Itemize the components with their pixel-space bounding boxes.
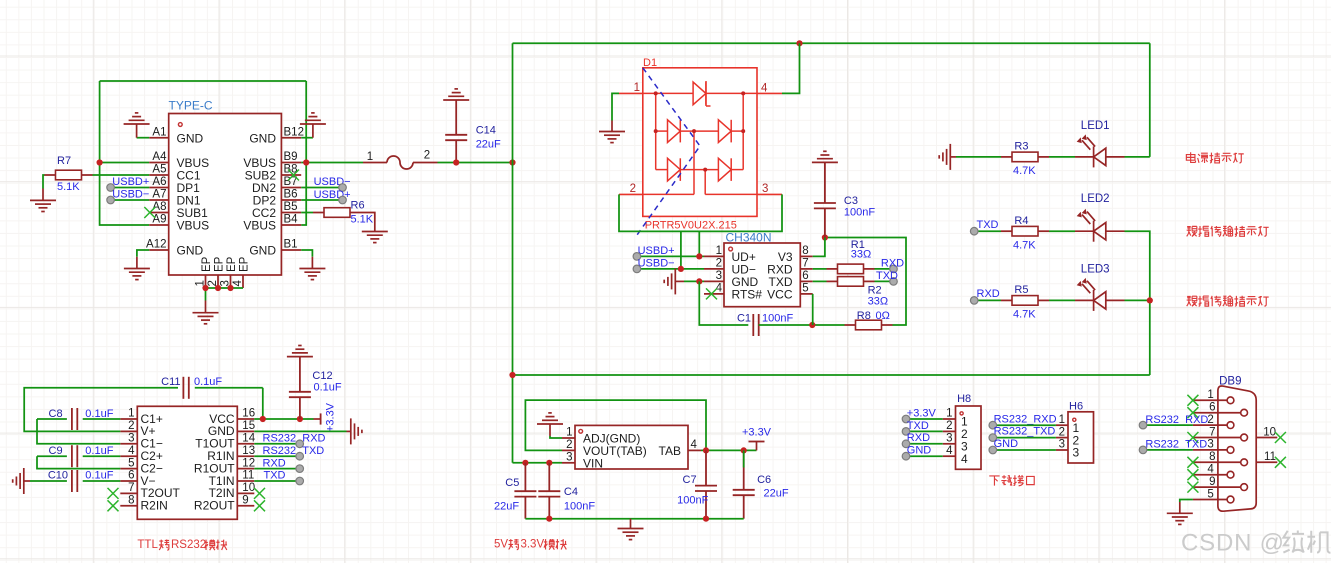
svg-text:33Ω: 33Ω — [868, 295, 888, 307]
svg-text:0.1uF: 0.1uF — [314, 382, 342, 394]
wire C11 right down — [262, 388, 264, 419]
pin 6 TXD — [769, 270, 813, 289]
junction — [297, 416, 303, 422]
capacitor C11 — [183, 377, 188, 399]
wire C1 to R8 — [759, 324, 845, 326]
D1 pin 2 — [619, 183, 643, 195]
no-connect X — [1187, 407, 1198, 418]
capacitor C7 — [695, 450, 717, 518]
pin B6 DP2 — [253, 189, 302, 208]
pin 7 DB9 — [1193, 426, 1248, 441]
net terminal dot — [970, 297, 978, 305]
svg-text:VCC: VCC — [767, 288, 793, 302]
svg-text:6: 6 — [128, 470, 134, 482]
no-connect X — [108, 500, 119, 511]
svg-text:4.7K: 4.7K — [1013, 309, 1036, 321]
junction — [546, 460, 552, 466]
pin 3 VIN — [562, 452, 603, 471]
wire LED1 to rail — [1125, 156, 1150, 158]
svg-text:A1: A1 — [152, 126, 166, 138]
wire — [906, 418, 943, 420]
LED LED3 — [1075, 279, 1125, 311]
D1 inner junction — [654, 129, 658, 133]
pin 2 V+ — [120, 420, 155, 438]
ground GND pin3 — [675, 280, 684, 282]
svg-text:VIN: VIN — [583, 456, 603, 470]
svg-text:7: 7 — [802, 258, 808, 270]
no-connect X — [144, 207, 155, 218]
net terminal dot — [633, 253, 641, 261]
svg-text:TXD: TXD — [977, 219, 999, 231]
pin B12 GND — [249, 126, 304, 145]
svg-text:CSDN @: CSDN @ — [1181, 530, 1285, 557]
net label RXD — [907, 432, 930, 444]
junction — [546, 516, 552, 522]
wire D1 pin1 to ground — [612, 93, 619, 120]
svg-text:4.7K: 4.7K — [1013, 240, 1036, 252]
resistor R4 — [1001, 226, 1049, 236]
no-connect X — [1187, 482, 1198, 493]
wire A12 to ground — [137, 250, 149, 257]
wire — [301, 187, 342, 189]
wire RXD pin7 — [813, 268, 827, 270]
pin 2 UD&#8722; — [704, 258, 756, 277]
svg-text:4: 4 — [761, 83, 768, 95]
svg-text:1: 1 — [128, 408, 134, 420]
svg-text:6: 6 — [802, 270, 808, 282]
junction — [809, 322, 815, 328]
svg-text:3: 3 — [1073, 446, 1080, 460]
svg-text:+3.3V: +3.3V — [325, 402, 337, 432]
svg-text:C6: C6 — [757, 474, 771, 486]
svg-text:3: 3 — [946, 433, 952, 445]
ground — [1167, 513, 1193, 524]
ground — [193, 313, 219, 324]
svg-text:GND: GND — [249, 244, 276, 258]
junction — [678, 266, 684, 272]
wire — [1143, 424, 1193, 426]
wire B12 to ground — [301, 137, 313, 139]
svg-text:C4: C4 — [564, 486, 578, 498]
ground — [537, 413, 563, 424]
net label USBD+ (B6) — [314, 189, 351, 201]
wire DB9 pin5 to ground — [1180, 500, 1193, 503]
svg-text:VBUS: VBUS — [243, 219, 276, 233]
pin-1 marker — [729, 247, 733, 251]
wire R7 to ground — [43, 175, 45, 189]
net label RS232_TXD — [263, 445, 325, 457]
svg-text:RS232_RXD: RS232_RXD — [994, 413, 1057, 425]
wire GND to C1 — [699, 281, 748, 325]
svg-text:R4: R4 — [1014, 215, 1028, 227]
wire TAB row — [701, 449, 757, 451]
svg-text:6: 6 — [1209, 402, 1215, 414]
wire R4 to LED2 — [1049, 230, 1075, 232]
wire — [993, 424, 1056, 426]
svg-text:GND: GND — [249, 131, 276, 145]
wire C11 net — [195, 387, 263, 389]
net terminal dot — [296, 477, 304, 485]
svg-text:3: 3 — [716, 270, 722, 282]
svg-text:4: 4 — [128, 445, 135, 457]
wire — [254, 468, 299, 470]
svg-text:11: 11 — [242, 470, 254, 482]
svg-text:CH340N: CH340N — [726, 231, 772, 245]
svg-text:33Ω: 33Ω — [851, 249, 871, 261]
svg-text:0.1uF: 0.1uF — [85, 408, 113, 420]
svg-text:R3: R3 — [1014, 141, 1028, 153]
net terminal dot — [890, 265, 898, 273]
wire GND pin3 — [684, 280, 704, 282]
wire — [111, 199, 150, 201]
svg-text:0.1uF: 0.1uF — [85, 445, 113, 457]
D1 pin 1 — [619, 82, 643, 94]
pin B4 VBUS — [243, 214, 301, 233]
svg-text:2: 2 — [1059, 426, 1065, 438]
pin A8 SUB1 — [149, 201, 208, 220]
capacitor C3 — [814, 162, 836, 237]
net label GND — [994, 438, 1019, 450]
svg-text:5V: 5V — [494, 539, 508, 551]
wire — [974, 299, 1001, 301]
wire LED2 to LED3 vertical — [1125, 231, 1150, 375]
pin B5 CC2 — [252, 201, 301, 220]
D1 inner junction — [692, 129, 696, 133]
svg-text:GND: GND — [994, 438, 1019, 450]
svg-text:8: 8 — [128, 495, 134, 507]
net terminal dot — [902, 452, 910, 460]
wire R8 to V3 rail — [825, 238, 906, 326]
pin B1 GND — [249, 239, 301, 258]
svg-text:1: 1 — [367, 151, 373, 163]
svg-text:RXD: RXD — [907, 432, 930, 444]
power flag +3.3V — [742, 426, 772, 450]
junction — [97, 159, 103, 165]
wire ADJ to ground — [550, 436, 562, 438]
wire C10 net — [30, 480, 67, 482]
svg-text:RXD: RXD — [881, 258, 904, 270]
junction — [522, 460, 528, 466]
pin 4 RTS# — [704, 283, 762, 302]
svg-text:R8: R8 — [857, 310, 871, 322]
net terminal dot — [296, 465, 304, 473]
net label RS232_RXD (DB9) — [1145, 414, 1208, 426]
wire — [637, 255, 704, 257]
svg-text:5: 5 — [1207, 488, 1213, 500]
D1 inner junction — [703, 168, 707, 172]
svg-text:C9: C9 — [49, 445, 63, 457]
svg-text:4: 4 — [1207, 464, 1214, 476]
svg-text:RXD: RXD — [263, 457, 286, 469]
svg-text:USBD−: USBD− — [112, 189, 149, 201]
junction — [703, 447, 709, 453]
wire R3 to LED1 — [1049, 156, 1075, 158]
svg-text:RS232_TXD: RS232_TXD — [994, 426, 1056, 438]
capacitor C8 — [72, 408, 77, 430]
net label TXD — [264, 470, 286, 482]
svg-text:3: 3 — [566, 452, 572, 464]
svg-text:R2OUT: R2OUT — [194, 499, 235, 513]
wire — [974, 230, 1001, 232]
pin 16 VCC — [209, 408, 255, 426]
pin 14 T1OUT — [195, 433, 255, 451]
svg-text:3: 3 — [1059, 439, 1065, 451]
junction — [1147, 297, 1153, 303]
svg-text:5.1K: 5.1K — [57, 181, 80, 193]
capacitor C4 — [538, 463, 560, 519]
net terminal dot — [989, 446, 997, 454]
regulator U2 — [575, 425, 688, 469]
svg-text:RS232_TXD: RS232_TXD — [263, 445, 325, 457]
resistor R8 — [845, 320, 893, 330]
capacitor C9 — [72, 445, 77, 467]
pin 13 R1IN — [207, 445, 255, 463]
pin 1 H6 — [1056, 414, 1080, 435]
svg-text:A6: A6 — [152, 176, 166, 188]
wire — [1143, 449, 1193, 451]
pin 4 TAB — [659, 439, 701, 458]
D1 diode mid-left — [668, 120, 681, 143]
pin B8 SUB2 — [245, 164, 302, 183]
wire C9 net — [37, 455, 67, 457]
svg-text:C5: C5 — [505, 477, 519, 489]
ground — [351, 418, 362, 444]
label 电源指示灯 — [1186, 152, 1243, 163]
svg-text:+3.3V: +3.3V — [907, 407, 937, 419]
label 模块 — [544, 539, 567, 550]
ground — [362, 232, 388, 243]
wire VIN row — [513, 462, 563, 464]
svg-text:EP: EP — [239, 256, 251, 272]
net label USBD- (UD-) — [638, 258, 675, 270]
net terminal dot — [633, 265, 641, 273]
svg-text:1: 1 — [716, 245, 722, 257]
no-connect X — [1187, 432, 1198, 443]
pin A4 VBUS — [149, 151, 209, 170]
wire — [993, 449, 1056, 451]
svg-text:1: 1 — [1207, 389, 1213, 401]
svg-text:RS232_RXD: RS232_RXD — [263, 433, 326, 445]
pin 1 UD+ — [704, 245, 756, 264]
pin 1 C1+ — [120, 408, 163, 426]
resistor R5 — [1001, 296, 1049, 306]
resistor R2 — [827, 277, 875, 287]
label 纹机 — [1283, 530, 1330, 552]
svg-text:1: 1 — [946, 408, 952, 420]
wire GND pin15 — [254, 430, 346, 432]
wire R2 to TXD label — [875, 280, 894, 282]
wire R6 to ground — [361, 213, 375, 220]
svg-text:11: 11 — [1264, 451, 1276, 463]
svg-text:H6: H6 — [1069, 400, 1083, 412]
svg-text:15: 15 — [242, 420, 255, 432]
junction — [303, 159, 309, 165]
label 下载接口 — [989, 475, 1034, 486]
svg-text:16: 16 — [242, 408, 255, 420]
pin-1 marker — [960, 412, 963, 415]
net label USBD+ (UD+) — [638, 245, 675, 257]
no-connect X — [108, 488, 119, 499]
wire — [254, 480, 299, 482]
net label RS232_RXD — [994, 413, 1057, 425]
pin 2 H6 — [1056, 426, 1080, 447]
wire — [111, 187, 150, 189]
ground — [443, 89, 469, 100]
pin 1 DB9 — [1193, 389, 1234, 404]
pin 4 EP — [232, 256, 251, 288]
D1 diode bot-right — [718, 158, 731, 181]
wire rail to LED1 — [1149, 43, 1151, 157]
net label USBD- (B7) — [314, 176, 351, 188]
D1 dashed marking — [637, 68, 700, 235]
svg-text:100nF: 100nF — [762, 312, 793, 324]
wire A1 to ground — [137, 137, 150, 139]
ground — [30, 200, 56, 211]
ground — [124, 113, 150, 124]
net label RS232_TXD (DB9) — [1145, 439, 1207, 451]
net terminal dot — [1139, 446, 1147, 454]
label R8 0 — [857, 310, 890, 322]
junction — [453, 159, 459, 165]
net label TXD — [876, 270, 898, 282]
no-connect X — [706, 288, 717, 299]
svg-text:TXD: TXD — [264, 470, 286, 482]
wire 5V rail top — [513, 42, 1150, 44]
pin 11 T1IN — [209, 470, 255, 488]
svg-text:10: 10 — [242, 482, 255, 494]
svg-text:7: 7 — [128, 482, 134, 494]
junction — [703, 516, 709, 522]
svg-text:TAB: TAB — [659, 444, 681, 458]
pin 10 DB9 — [1256, 426, 1277, 438]
net terminal dot — [107, 196, 115, 204]
svg-text:5.1K: 5.1K — [351, 213, 374, 225]
wire B9 to fuse — [301, 162, 363, 164]
ground — [300, 113, 326, 124]
net label GND — [907, 445, 932, 457]
net label RXD — [881, 258, 904, 270]
svg-text:A5: A5 — [152, 164, 166, 176]
wire — [993, 437, 1056, 439]
pin-1 marker — [579, 429, 583, 433]
IC U1 CH340N — [724, 243, 800, 307]
svg-text:TXD: TXD — [876, 270, 898, 282]
no-connect X — [254, 500, 265, 511]
svg-text:3: 3 — [762, 183, 768, 195]
net terminal dot — [296, 452, 304, 460]
svg-text:B6: B6 — [284, 189, 298, 201]
pin A9 VBUS — [149, 214, 209, 233]
ground — [599, 132, 625, 143]
wire output bottom rail — [525, 518, 743, 520]
svg-text:B1: B1 — [284, 239, 298, 251]
resistor R6 — [313, 208, 361, 218]
pin 3 C1&#8722; — [120, 433, 163, 451]
pin 3 GND — [704, 270, 759, 289]
connector J1 TYPE-C — [169, 114, 282, 276]
ground — [812, 151, 838, 162]
net label +3.3V — [907, 407, 937, 419]
pin 5 DB9 — [1193, 488, 1234, 503]
fuse F1 — [363, 150, 438, 170]
wire C8 net — [37, 418, 67, 420]
junction — [227, 285, 233, 291]
wire VBUS loop around TYPE-C — [100, 162, 150, 164]
capacitor C12 — [289, 357, 311, 419]
pin B7 DN2 — [252, 176, 301, 195]
wire C3 to V3 pin — [813, 238, 825, 257]
capacitor C6 — [733, 450, 755, 518]
pin 8 DB9 — [1193, 451, 1248, 466]
svg-text:A4: A4 — [152, 151, 167, 163]
svg-text:4.7K: 4.7K — [1013, 165, 1036, 177]
svg-text:C8: C8 — [49, 408, 63, 420]
capacitor C14 — [445, 100, 467, 163]
svg-text:9: 9 — [242, 495, 248, 507]
net terminal dot — [339, 184, 347, 192]
svg-text:7: 7 — [1209, 426, 1215, 438]
wire — [906, 455, 943, 457]
svg-text:A12: A12 — [146, 239, 166, 251]
ground — [124, 269, 150, 280]
junction — [260, 416, 266, 422]
svg-text:C11: C11 — [161, 376, 180, 388]
svg-text:1: 1 — [566, 427, 572, 439]
net label RS232_TXD — [994, 426, 1056, 438]
pin 6 V&#8722; — [120, 470, 155, 488]
pin-1 marker — [1073, 418, 1076, 421]
svg-text:4: 4 — [961, 452, 968, 466]
wire D1 pins 2/3 down — [619, 194, 782, 231]
D1 pin 4 — [757, 83, 782, 95]
label 转 — [508, 539, 518, 550]
svg-text:GND: GND — [907, 445, 932, 457]
pin 3 H6 — [1056, 439, 1080, 460]
svg-text:RXD: RXD — [977, 288, 1000, 300]
svg-text:2: 2 — [630, 183, 636, 195]
pin A7 DN1 — [149, 189, 201, 208]
IC U3 RS232 transceiver — [137, 406, 237, 519]
label 模块 — [204, 540, 227, 551]
no-connect X — [1275, 457, 1286, 468]
svg-text:C14: C14 — [476, 125, 496, 137]
svg-text:8: 8 — [1209, 451, 1215, 463]
svg-text:2: 2 — [946, 420, 952, 432]
svg-text:4: 4 — [946, 445, 953, 457]
net label RS232_RXD — [263, 433, 326, 445]
pin A12 GND — [146, 239, 203, 258]
net label USBD+ (A6) — [112, 176, 149, 188]
ground regulator bottom — [630, 519, 632, 529]
D1 inner junction — [654, 91, 658, 95]
svg-text:TTL: TTL — [137, 539, 158, 551]
svg-text:C12: C12 — [312, 370, 332, 382]
pin 1 EP — [195, 256, 214, 288]
net terminal dot — [902, 428, 910, 436]
wire B5 to R6 — [301, 212, 313, 214]
pin 4 H8 — [943, 445, 968, 466]
wire to UD- row — [680, 231, 682, 269]
pin 3 DB9 — [1193, 439, 1234, 454]
ground — [939, 144, 950, 170]
ground EP — [205, 301, 207, 313]
wire R5 to LED3 — [1049, 299, 1075, 301]
net terminal dot — [989, 434, 997, 442]
svg-text:H8: H8 — [957, 393, 971, 405]
svg-text:13: 13 — [242, 445, 255, 457]
svg-text:RS232_RXD: RS232_RXD — [1145, 414, 1208, 426]
pin 6 DB9 — [1193, 402, 1248, 417]
